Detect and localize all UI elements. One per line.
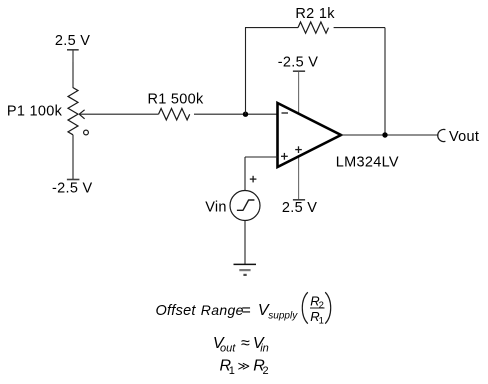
svg-text:LM324LV: LM324LV (336, 154, 399, 170)
svg-text:Range: Range (201, 302, 244, 318)
wire Vin to ground (244, 221, 246, 265)
wire feedback top left (245, 27, 298, 29)
svg-text:-2.5 V: -2.5 V (52, 181, 93, 197)
wire wiper to R1 (79, 113, 158, 115)
svg-text:2.5 V: 2.5 V (282, 200, 317, 216)
svg-text:in: in (260, 343, 269, 355)
formula: Vout ~= Vin (213, 335, 269, 354)
wire R1 to node A (194, 113, 278, 115)
potentiometer P1 100k (7, 88, 89, 135)
svg-text:out: out (220, 343, 236, 355)
svg-text:1: 1 (319, 315, 324, 326)
power -2.5V (pot bottom) (52, 180, 93, 197)
svg-text:2: 2 (263, 365, 269, 377)
wire +input down to Vin (244, 157, 246, 191)
svg-text:R1 500k: R1 500k (147, 92, 204, 108)
svg-text:1: 1 (229, 365, 235, 377)
svg-text:P1 100k: P1 100k (7, 103, 63, 119)
wire feedback top right (334, 27, 385, 29)
svg-text:Vin: Vin (205, 199, 227, 215)
svg-text:2.5 V: 2.5 V (55, 33, 90, 49)
svg-text:≫: ≫ (238, 359, 251, 373)
wire op-amp top supply (298, 72, 300, 114)
wire feedback right vertical (384, 28, 386, 135)
wire pot bottom (72, 135, 74, 179)
node B junction dot (output) (382, 132, 387, 137)
power +2.5V (op-amp bottom supply) (282, 200, 317, 216)
wire output (341, 134, 439, 136)
port Vout (438, 129, 479, 145)
wire feedback left vertical (245, 28, 247, 115)
wire pot top (72, 62, 74, 88)
formula: Offset Range = Vsupply (R2/R1) (156, 292, 331, 326)
svg-text:≈: ≈ (241, 335, 250, 352)
resistor R1 500k (147, 92, 204, 120)
power +2.5V (pot top) (55, 33, 90, 62)
source Vin (205, 176, 260, 221)
ground (234, 264, 257, 275)
formula: R1 >> R2 (220, 357, 269, 377)
svg-text:supply: supply (268, 310, 298, 321)
svg-text:=: = (242, 302, 251, 319)
op-amp U1 LM324LV (278, 103, 399, 170)
wire +input horizontal (245, 156, 278, 158)
svg-text:Offset: Offset (156, 303, 197, 319)
svg-text:Vout: Vout (449, 129, 479, 145)
node A junction dot (243, 112, 248, 117)
resistor R2 1k (295, 6, 335, 33)
wire op-amp bottom supply (298, 157, 300, 200)
svg-text:-2.5 V: -2.5 V (278, 55, 319, 71)
svg-text:R2 1k: R2 1k (295, 6, 335, 22)
power -2.5V (op-amp top supply) (278, 55, 319, 72)
